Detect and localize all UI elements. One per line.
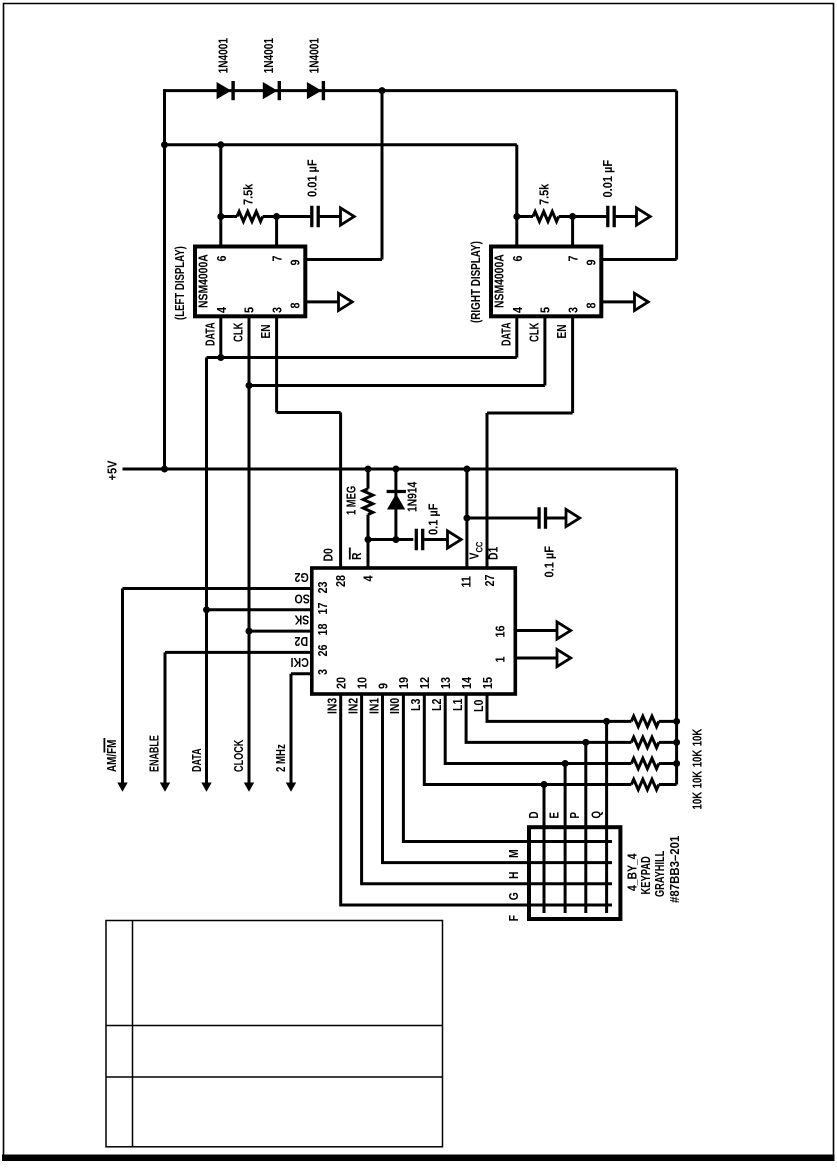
svg-text:L0: L0: [471, 699, 486, 712]
wire Vcc bypass horizontal: [467, 517, 539, 520]
wire pin8 right display to ground: [601, 300, 634, 303]
svg-text:1 MEG: 1 MEG: [345, 486, 359, 515]
wire D0 net: left EN down: [275, 316, 278, 412]
svg-text:1N914: 1N914: [405, 481, 419, 512]
capacitor C1 0.01uF left: [277, 206, 341, 228]
wire CLOCK net: left pin5 down to arrow: [248, 316, 251, 784]
svg-text:G2: G2: [294, 570, 309, 585]
junction dot R node 1MEG: [365, 536, 372, 543]
wire pin6 right display vertical: [515, 145, 518, 248]
wire R node to pin 4: [367, 540, 370, 569]
svg-text:4_BY_4: 4_BY_4: [625, 853, 639, 891]
svg-text:15: 15: [480, 677, 495, 689]
svg-text:4: 4: [214, 307, 229, 313]
junction dot rail 1N914: [392, 466, 399, 473]
svg-text:3: 3: [270, 307, 285, 313]
svg-text:NSM4000A: NSM4000A: [492, 254, 506, 308]
wire top diode line: [165, 89, 677, 92]
junction dot 7.5k right node B: [569, 213, 576, 220]
svg-text:0.1 µF: 0.1 µF: [426, 503, 441, 535]
svg-text:IN0: IN0: [388, 697, 402, 714]
wire D1 net horizontal: [487, 412, 573, 415]
svg-text:9: 9: [288, 259, 303, 265]
svg-text:+5V: +5V: [105, 461, 120, 481]
svg-text:R: R: [350, 552, 364, 560]
svg-text:11: 11: [459, 576, 474, 588]
svg-text:DATA: DATA: [204, 322, 218, 346]
wire keypad column E: [564, 764, 567, 914]
wire keypad column D: [543, 785, 546, 914]
wire IN3 to keypad row F: [341, 694, 612, 905]
svg-text:10K: 10K: [691, 791, 705, 809]
svg-text:D2: D2: [294, 634, 308, 649]
svg-text:7: 7: [270, 255, 285, 261]
wire keypad column P: [584, 742, 587, 913]
svg-text:27: 27: [482, 574, 497, 586]
wire G2 from pin 23: [123, 587, 312, 590]
svg-text:L1: L1: [450, 698, 465, 711]
svg-text:5: 5: [242, 307, 257, 313]
junction dot 7.5k right node A: [513, 213, 520, 220]
svg-text:H: H: [507, 871, 521, 879]
ground C1: [341, 208, 355, 225]
svg-text:M: M: [507, 849, 521, 858]
svg-text:IN2: IN2: [346, 697, 360, 714]
wire R node horizontal: [368, 538, 413, 541]
junction dot SO/DATA: [203, 606, 210, 613]
svg-text:16: 16: [493, 625, 508, 637]
svg-text:26: 26: [315, 644, 330, 656]
svg-text:1: 1: [493, 656, 508, 662]
resistor R2 7.5k right: [517, 212, 573, 222]
svg-text:10K: 10K: [691, 770, 705, 788]
junction dot R node 1N914: [392, 536, 399, 543]
arrow AM/FM: [117, 783, 127, 792]
svg-text:L2: L2: [429, 698, 444, 711]
svg-text:IN3: IN3: [325, 697, 339, 714]
wire keypad column Q: [605, 721, 608, 913]
resistor R6 10K row3: [631, 758, 676, 768]
svg-text:4: 4: [361, 575, 376, 581]
svg-text:L3: L3: [408, 698, 423, 711]
wire +5V left vertical: [163, 89, 166, 469]
wire second horizontal line: [165, 143, 517, 146]
svg-text:SO: SO: [295, 591, 310, 606]
svg-text:Q: Q: [590, 811, 604, 819]
wire pin9 right display horizontal: [601, 258, 676, 261]
svg-text:(LEFT DISPLAY): (LEFT DISPLAY): [174, 246, 188, 320]
wire IN1 to keypad row H: [383, 694, 613, 863]
wire SK from pin 18: [249, 630, 312, 633]
svg-text:DATA: DATA: [500, 322, 514, 346]
svg-text:#87BB3–201: #87BB3–201: [667, 835, 682, 903]
svg-text:3: 3: [315, 669, 330, 675]
svg-text:EN: EN: [259, 324, 273, 338]
svg-text:E: E: [548, 812, 562, 819]
svg-text:CLOCK: CLOCK: [233, 740, 247, 772]
resistor R3 1 MEG: [363, 469, 373, 540]
svg-text:(RIGHT DISPLAY): (RIGHT DISPLAY): [470, 241, 484, 323]
capacitor C3 0.1uF: [416, 529, 447, 551]
wire right bus vertical: [675, 469, 678, 785]
resistor R7 10K row4: [631, 779, 676, 789]
junction dot rail Vcc: [463, 466, 470, 473]
junction dot Vcc node: [463, 515, 470, 522]
svg-text:DATA: DATA: [190, 748, 204, 772]
ground C3: [448, 531, 462, 548]
svg-text:10K: 10K: [691, 749, 705, 767]
wire CKI from pin 3: [291, 672, 312, 675]
svg-text:13: 13: [438, 677, 453, 689]
wire L2 to row 3: [445, 694, 631, 764]
wire D1 net: right EN down: [571, 316, 574, 413]
svg-text:5: 5: [538, 307, 553, 313]
wire pin7 right display vertical: [571, 217, 574, 249]
diode CR1 1N4001: [217, 81, 234, 100]
wire ENABLE vertical: [164, 652, 167, 784]
svg-text:2 MHz: 2 MHz: [275, 744, 289, 772]
diode CR4 1N914: [387, 469, 406, 540]
resistor R4 10K row1: [631, 716, 676, 726]
svg-text:D1: D1: [486, 546, 500, 560]
wire DATA net vertical to arrow: [205, 358, 208, 785]
wire DATA net horizontal: [207, 356, 517, 359]
wire pin1 to ground: [515, 657, 557, 660]
svg-text:1N4001: 1N4001: [307, 37, 321, 73]
title block table: [106, 921, 443, 1147]
junction dot row1 bus: [673, 718, 680, 725]
svg-text:SK: SK: [294, 612, 309, 627]
svg-text:CLK: CLK: [528, 322, 542, 342]
svg-text:EN: EN: [555, 324, 569, 338]
junction dot row4 col D: [541, 781, 548, 788]
wire L1 to row 2: [466, 694, 631, 742]
svg-text:0.01 µF: 0.01 µF: [305, 159, 320, 197]
wire DATA net: left pin4 down: [219, 316, 222, 357]
svg-text:0.01 µF: 0.01 µF: [600, 160, 615, 198]
ground C2: [637, 208, 651, 225]
svg-text:1N4001: 1N4001: [216, 37, 230, 73]
junction dot row3 bus: [673, 760, 680, 767]
svg-text:3: 3: [566, 307, 581, 313]
svg-text:23: 23: [315, 581, 330, 593]
svg-text:IN1: IN1: [367, 697, 381, 714]
ground C4: [566, 509, 580, 526]
arrow ENABLE: [160, 783, 170, 792]
wire L0 to row 1: [487, 694, 631, 721]
svg-text:GRAYHILL: GRAYHILL: [654, 851, 668, 897]
wire pin7 left display vertical: [275, 217, 278, 249]
svg-text:VCC: VCC: [467, 542, 484, 560]
svg-text:10K: 10K: [691, 728, 705, 746]
wire IN0 to keypad row M: [403, 694, 612, 842]
junction dot CLOCK net: [246, 382, 253, 389]
microcontroller U3 box: [312, 568, 516, 694]
diode CR2 1N4001: [263, 81, 280, 100]
svg-text:P: P: [569, 812, 583, 819]
wire CLOCK net horizontal: [249, 384, 545, 387]
junction dot row3 col E: [562, 760, 569, 767]
svg-text:7.5k: 7.5k: [537, 183, 552, 205]
ground pin8 left display: [339, 293, 353, 310]
junction dot rail 1MEG: [365, 466, 372, 473]
svg-text:10: 10: [354, 677, 369, 689]
junction dot DATA net: [217, 354, 224, 361]
arrow CLOCK: [244, 783, 254, 792]
svg-text:AM/FM: AM/FM: [106, 740, 120, 772]
svg-text:6: 6: [214, 255, 229, 261]
svg-text:0.1 µF: 0.1 µF: [542, 546, 557, 578]
wire D0 net down to pin 28: [339, 413, 342, 569]
arrow 2MHz: [286, 783, 296, 792]
wire pin9 left display horizontal: [305, 258, 382, 261]
junction dot row1 col Q: [603, 718, 610, 725]
ground pin16: [557, 622, 571, 639]
display driver U1 NSM4000A (left) box: [195, 247, 305, 317]
svg-text:14: 14: [459, 677, 474, 689]
junction dot row2 bus: [673, 739, 680, 746]
svg-text:8: 8: [288, 302, 303, 308]
wire AM/FM vertical: [121, 589, 124, 785]
wire pin9 left display riser: [381, 91, 384, 260]
junction dot SK/CLOCK: [246, 628, 253, 635]
display driver U2 NSM4000A (right) box: [491, 247, 601, 317]
diode CR3 1N4001: [307, 81, 324, 100]
wire CLOCK net: right pin5 down: [543, 316, 546, 385]
wire top right corner down: [675, 91, 678, 260]
ground pin1: [557, 649, 571, 666]
label R-bar pin: [350, 548, 365, 561]
wire pin6 left display vertical: [219, 145, 222, 248]
svg-text:12: 12: [417, 677, 432, 689]
wire 2MHz vertical: [290, 674, 293, 784]
junction dot 7.5k left node B: [273, 213, 280, 220]
svg-text:CLK: CLK: [232, 322, 246, 342]
svg-text:G: G: [507, 892, 521, 900]
junction dot 7.5k left node A: [217, 213, 224, 220]
svg-text:6: 6: [510, 255, 525, 261]
wire D1 net down to pin 27: [486, 413, 489, 568]
svg-text:1N4001: 1N4001: [262, 37, 276, 73]
ground pin8 right display: [635, 293, 649, 310]
junction dot second line left: [161, 141, 168, 148]
svg-text:ENABLE: ENABLE: [148, 735, 162, 772]
wire D0 net horizontal: [277, 411, 341, 414]
junction dot rail x164: [161, 466, 168, 473]
svg-text:KEYPAD: KEYPAD: [640, 856, 654, 894]
resistor R1 7.5k left: [221, 212, 277, 222]
wire DATA net: right pin4 down: [515, 316, 518, 357]
wire D2 from pin 26: [165, 651, 312, 654]
svg-text:18: 18: [315, 623, 330, 635]
svg-text:7.5k: 7.5k: [241, 183, 256, 205]
svg-text:19: 19: [396, 677, 411, 689]
capacitor C2 0.01uF right: [573, 206, 637, 228]
resistor R5 10K row2: [631, 737, 676, 747]
svg-text:9: 9: [584, 259, 599, 265]
junction dot row2 col P: [582, 739, 589, 746]
svg-text:NSM4000A: NSM4000A: [196, 254, 210, 308]
wire pin16 to ground: [515, 629, 557, 632]
label AM/FM: [104, 738, 119, 772]
keypad S1 4x4 box: [529, 827, 620, 919]
svg-text:17: 17: [315, 602, 330, 614]
svg-text:D0: D0: [321, 548, 335, 562]
svg-text:20: 20: [334, 677, 349, 689]
svg-text:28: 28: [333, 575, 348, 587]
svg-text:F: F: [507, 915, 521, 921]
wire +5V rail: [123, 468, 677, 471]
svg-text:9: 9: [375, 683, 390, 689]
svg-text:4: 4: [510, 307, 525, 313]
svg-text:CKI: CKI: [291, 655, 309, 670]
junction dot top line: [379, 87, 386, 94]
capacitor C4 0.1uF bypass: [539, 507, 566, 529]
wire pin8 left display to ground: [305, 300, 338, 303]
wire Vcc vertical to pin 11: [465, 469, 468, 568]
wire L3 to row 4: [424, 694, 631, 785]
svg-text:D: D: [528, 811, 542, 818]
svg-text:8: 8: [584, 302, 599, 308]
arrow DATA: [201, 783, 211, 792]
wire IN2 to keypad row G: [362, 694, 612, 884]
junction dot second line pin6: [217, 141, 224, 148]
wire SO from pin 17: [207, 608, 312, 611]
svg-text:7: 7: [566, 255, 581, 261]
